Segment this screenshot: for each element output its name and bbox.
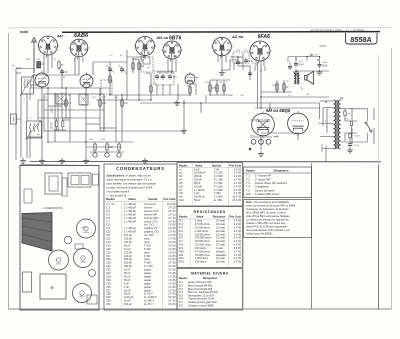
- svg-text:1/2 watt: 1/2 watt: [216, 225, 225, 229]
- model tag 8558A: [346, 33, 378, 44]
- resistor R20: [344, 111, 346, 116]
- svg-text:C28: C28: [106, 292, 111, 296]
- wire socket leads: [44, 55, 264, 66]
- svg-text:47 000 ohms: 47 000 ohms: [195, 249, 210, 253]
- svg-text:Repère: Repère: [179, 277, 188, 280]
- chassis small box: [75, 244, 83, 249]
- table middle top column rules: [228, 163, 230, 206]
- svg-text:2 F 15: 2 F 15: [168, 212, 176, 216]
- svg-text:F 150: F 150: [144, 261, 151, 265]
- svg-text:Valeur: Valeur: [196, 216, 204, 219]
- antenna coil L1: [22, 77, 34, 94]
- svg-text:1 x 490 pF: 1 x 490 pF: [124, 226, 136, 230]
- svg-text:100 pF: 100 pF: [124, 254, 132, 258]
- svg-text:25 nF: 25 nF: [124, 288, 131, 292]
- svg-text:F 150: F 150: [144, 254, 151, 258]
- svg-text:2 F 45: 2 F 45: [168, 226, 176, 230]
- svg-text:1 F 05: 1 F 05: [168, 243, 176, 247]
- svg-text:1 F 05: 1 F 05: [168, 240, 176, 244]
- svg-text:2 F 65: 2 F 65: [234, 167, 242, 171]
- svg-text:220 000 ohms: 220 000 ohms: [195, 243, 212, 247]
- svg-text:1 F 05: 1 F 05: [168, 247, 176, 251]
- svg-text:33 000 ohms: 33 000 ohms: [195, 239, 210, 243]
- svg-text:papier: papier: [144, 274, 151, 278]
- svg-text:12 F 50: 12 F 50: [167, 202, 176, 206]
- resistor R9: [189, 87, 191, 93]
- svg-text:2 200 ohms: 2 200 ohms: [195, 229, 209, 233]
- IF can under T2: [79, 94, 88, 105]
- svg-text:sect.: sect.: [250, 134, 255, 137]
- svg-text:séries PVC 42 et 80 sont rigou: séries PVC 42 et 80 sont rigoureuse-: [246, 225, 288, 229]
- svg-text:50 nF: 50 nF: [124, 278, 131, 282]
- svg-text:1°° lampe HF: 1°° lampe HF: [255, 174, 271, 178]
- svg-text:2 x 490 pF: 2 x 490 pF: [124, 202, 136, 206]
- svg-text:1 F 35: 1 F 35: [168, 281, 176, 285]
- svg-text:valve 80 ou 8Q4 redresseuse bi: valve 80 ou 8Q4 redresseuse biplaque.: [246, 214, 291, 218]
- wire bus bottom: [30, 161, 381, 163]
- svg-text:m7: m7: [179, 188, 183, 192]
- svg-text:papier: papier: [144, 268, 151, 272]
- tube T2 IF amp: [80, 75, 93, 88]
- value labels scattered: [12, 50, 328, 141]
- dial lamp LP1: [93, 153, 97, 157]
- vertical rule right of tables: [311, 163, 313, 309]
- svg-text:m10: m10: [179, 198, 185, 202]
- resistor R1: [58, 62, 60, 68]
- svg-text:Repère: Repère: [106, 197, 115, 201]
- svg-text:él. 450 V: él. 450 V: [144, 299, 154, 303]
- svg-text:1 x 490 pF: 1 x 490 pF: [124, 219, 136, 223]
- capacitor C2: [108, 68, 112, 70]
- coil adjust arrow L1: [20, 76, 34, 97]
- svg-text:C 9: C 9: [106, 226, 111, 230]
- svg-text:6M ou 6BQ5: 6M ou 6BQ5: [266, 108, 291, 113]
- svg-text:R11: R11: [179, 253, 184, 257]
- svg-text:47nF: 47nF: [299, 65, 305, 67]
- capacitor C7: [236, 61, 240, 63]
- svg-text:C 7: C 7: [106, 219, 111, 223]
- svg-text:C 1, C2: C 1, C2: [106, 202, 115, 206]
- svg-text:C15: C15: [106, 247, 111, 251]
- svg-text:R 2: R 2: [179, 222, 184, 226]
- svg-text:1M: 1M: [219, 82, 222, 84]
- chassis tube C: [74, 249, 93, 268]
- svg-text:mica: mica: [144, 240, 150, 244]
- svg-text:F 150: F 150: [144, 247, 151, 251]
- svg-text:Désignation: Désignation: [274, 168, 289, 172]
- svg-text:pot: pot: [186, 84, 189, 87]
- svg-text:1/2 watt: 1/2 watt: [216, 236, 225, 240]
- svg-text:R 5: R 5: [179, 232, 184, 236]
- tube socket V2: [70, 39, 88, 57]
- svg-text:F 1 150: F 1 150: [214, 171, 223, 175]
- oscillator coil L2: [27, 121, 42, 138]
- svg-text:2 F 15: 2 F 15: [168, 205, 176, 209]
- svg-text:100 µF: 100 µF: [124, 302, 132, 306]
- IF transformer box MF0: [141, 57, 153, 72]
- empty continuation box: [243, 238, 245, 308]
- svg-text:1M: 1M: [141, 66, 144, 68]
- svg-text:Valeur: Valeur: [128, 197, 136, 201]
- svg-text:0 F 45: 0 F 45: [234, 222, 242, 226]
- capacitor C9: [294, 63, 298, 65]
- svg-text:R 3: R 3: [179, 225, 184, 229]
- svg-text:R12: R12: [179, 256, 184, 260]
- rule above tables: [20, 165, 99, 166]
- svg-text:1 F 35: 1 F 35: [168, 285, 176, 289]
- svg-text:Lampe de sortie: Lampe de sortie: [255, 188, 275, 192]
- svg-text:22 000 ohms: 22 000 ohms: [195, 225, 210, 229]
- svg-text:T 4: T 4: [246, 185, 250, 189]
- svg-text:2 F 15: 2 F 15: [168, 209, 176, 213]
- svg-text:2 F 60: 2 F 60: [168, 302, 176, 306]
- capacitor C13: [248, 72, 252, 74]
- svg-text:papier: papier: [144, 278, 151, 282]
- svg-text:et la matière quali F.: et la matière quali F.: [107, 190, 130, 194]
- svg-text:6BT6: 6BT6: [169, 36, 181, 42]
- svg-text:2 x 450: 2 x 450: [214, 195, 223, 199]
- resistor R6: [132, 63, 134, 69]
- svg-text:1 F 05: 1 F 05: [234, 219, 242, 223]
- svg-text:2 x 50 pF: 2 x 50 pF: [194, 188, 205, 192]
- svg-text:1 F 05: 1 F 05: [168, 233, 176, 237]
- svg-text:1 F 05: 1 F 05: [168, 223, 176, 227]
- svg-text:50 µF: 50 µF: [194, 198, 201, 202]
- svg-text:LPC: LPC: [246, 192, 251, 196]
- svg-text:5 F 30: 5 F 30: [168, 295, 176, 299]
- svg-text:2 µF: 2 µF: [194, 191, 200, 195]
- svg-text:C30: C30: [106, 299, 111, 303]
- svg-text:150 pF: 150 pF: [124, 233, 132, 237]
- svg-text:2 F 45: 2 F 45: [234, 174, 242, 178]
- svg-text:0 F 45: 0 F 45: [234, 229, 242, 233]
- svg-text:1 F 35: 1 F 35: [168, 271, 176, 275]
- svg-text:m2: m2: [179, 171, 183, 175]
- svg-text:F 1 500: F 1 500: [214, 181, 223, 185]
- output transformer TR2: [294, 73, 295, 84]
- chassis layout box: [20, 166, 99, 311]
- svg-text:céram. CV2: céram. CV2: [144, 219, 158, 223]
- tube socket V5 AZ: [213, 37, 232, 56]
- capacitor C11: [288, 66, 292, 68]
- trimmer CV1: [107, 65, 114, 72]
- table condensateurs box: [104, 164, 177, 310]
- svg-text:Prix Code: Prix Code: [229, 164, 241, 167]
- chassis IF can B: [68, 173, 91, 187]
- svg-text:T 2: T 2: [246, 177, 250, 181]
- svg-text:entre eux-mêmes de la coupe 48: entre eux-mêmes de la coupe 487 ou 6AB6,: [246, 204, 296, 208]
- svg-text:R 1: R 1: [179, 219, 184, 223]
- svg-text:+HT: +HT: [240, 95, 245, 97]
- svg-text:C A: C A: [36, 58, 40, 61]
- vertical rule far right: [378, 55, 380, 165]
- IF transformer box MF1: [101, 80, 112, 94]
- tube socket V1 6AB6: [39, 36, 58, 55]
- svg-text:mica: mica: [144, 237, 150, 241]
- chassis small can right edge: [93, 174, 99, 185]
- svg-text:481 ou: 481 ou: [156, 36, 169, 40]
- svg-text:5 nF: 5 nF: [124, 281, 130, 285]
- IF can under T1: [56, 94, 66, 104]
- svg-text:6,3V: 6,3V: [101, 139, 106, 141]
- svg-text:à bloc techniques la céramique: à bloc techniques la céramique. CV c.a.: [107, 178, 153, 182]
- mains plug terminals: [251, 139, 256, 144]
- wire to HT: [288, 54, 320, 64]
- svg-text:2 F 45: 2 F 45: [234, 191, 242, 195]
- wire loop left section: [30, 94, 104, 158]
- svg-text:G: G: [262, 58, 264, 60]
- svg-text:250 pF: 250 pF: [124, 264, 132, 268]
- svg-text:2 F 15: 2 F 15: [168, 216, 176, 220]
- svg-text:ment équivalentes à titre indi: ment équivalentes à titre indicatif, il …: [246, 228, 290, 232]
- svg-text:1/2 watt: 1/2 watt: [216, 256, 225, 260]
- svg-text:Spécial.: Spécial.: [212, 164, 222, 167]
- chassis IF can A: [45, 173, 62, 194]
- svg-text:50 pF: 50 pF: [124, 243, 131, 247]
- svg-text:1/2 watt: 1/2 watt: [216, 229, 225, 233]
- svg-text:m9: m9: [179, 195, 183, 199]
- svg-text:47 000 ohms: 47 000 ohms: [195, 222, 210, 226]
- ground: [219, 70, 225, 76]
- svg-text:0 F 45: 0 F 45: [234, 232, 242, 236]
- svg-text:m5: m5: [179, 181, 183, 185]
- svg-text:1/2 watt: 1/2 watt: [216, 219, 225, 223]
- svg-text:250 pF: 250 pF: [124, 237, 132, 241]
- svg-text:10 000 ohms: 10 000 ohms: [195, 232, 210, 236]
- svg-text:1 F 05: 1 F 05: [234, 249, 242, 253]
- svg-text:C20: C20: [106, 264, 111, 268]
- svg-text:C29: C29: [106, 295, 111, 299]
- svg-text:ra suite. Ne fournir d'achat p: ra suite. Ne fournir d'achat pour F et M…: [107, 186, 153, 190]
- svg-text:Châssis nu percé 8558: Châssis nu percé 8558: [188, 304, 214, 307]
- tube socket V6 6FA6: [250, 41, 270, 61]
- svg-text:1 000 ohms: 1 000 ohms: [195, 256, 209, 260]
- svg-text:C 6: C 6: [106, 216, 111, 220]
- frame left rule: [8, 33, 10, 309]
- svg-text:470 ohms: 470 ohms: [195, 260, 207, 264]
- resistor R4: [109, 76, 111, 82]
- frame top rule: [62, 31, 380, 34]
- svg-text:R 9: R 9: [179, 246, 184, 250]
- svg-text:T 5: T 5: [246, 188, 250, 192]
- ground: [258, 151, 264, 157]
- svg-text:papier: papier: [144, 285, 151, 289]
- wire extra verticals: [16, 57, 326, 162]
- chassis tube B: [49, 250, 69, 270]
- svg-text:R 4: R 4: [179, 229, 184, 233]
- ground: [83, 158, 89, 164]
- svg-text:a.HT: a.HT: [314, 55, 319, 57]
- svg-text:100 pF: 100 pF: [194, 184, 202, 188]
- svg-text:1 x 490 pF: 1 x 490 pF: [124, 209, 136, 213]
- terminal block left edge: [11, 114, 17, 124]
- svg-text:50 µF: 50 µF: [124, 292, 131, 296]
- svg-text:50nF: 50nF: [322, 66, 328, 68]
- svg-text:Puissance: Puissance: [213, 216, 226, 219]
- rectifier filter network: [341, 109, 368, 142]
- svg-text:C27: C27: [106, 288, 111, 292]
- svg-text:1 F 35: 1 F 35: [168, 274, 176, 278]
- svg-text:50 pF: 50 pF: [194, 181, 201, 185]
- svg-text:10 nF: 10 nF: [124, 268, 131, 272]
- svg-text:1/2 watt: 1/2 watt: [216, 239, 225, 243]
- coil adjust arrow L2: [25, 121, 41, 141]
- svg-text:250 pF: 250 pF: [194, 174, 202, 178]
- svg-text:ajustable: ajustable: [216, 253, 227, 257]
- svg-text:1 F 35: 1 F 35: [168, 261, 176, 265]
- chassis tube D: [73, 284, 92, 303]
- svg-text:C16: C16: [106, 250, 111, 254]
- svg-text:F 1 150: F 1 150: [144, 264, 153, 268]
- ground: [174, 100, 180, 106]
- svg-text:1 x 490 pF: 1 x 490 pF: [124, 230, 136, 234]
- svg-text:250 pF: 250 pF: [194, 178, 202, 182]
- resistor R5: [121, 100, 123, 106]
- ground: [20, 158, 26, 164]
- ground: [59, 158, 65, 164]
- svg-text:AZ ou: AZ ou: [231, 34, 244, 39]
- frame right rule: [391, 48, 393, 309]
- svg-text:F 150: F 150: [144, 243, 151, 247]
- svg-text:470 000 ohms: 470 000 ohms: [195, 236, 212, 240]
- svg-text:C23: C23: [106, 274, 111, 278]
- svg-text:10nF: 10nF: [194, 167, 200, 171]
- svg-text:él. 25 V: él. 25 V: [144, 292, 153, 296]
- svg-text:C25: C25: [106, 281, 111, 285]
- chassis pilot hole: [64, 236, 72, 244]
- AVC arrows: [37, 75, 91, 86]
- svg-text:C13: C13: [106, 240, 111, 244]
- svg-text:R 8: R 8: [179, 243, 184, 247]
- resistor R13: [276, 84, 278, 90]
- svg-text:100 pF: 100 pF: [124, 240, 132, 244]
- svg-text:1 F 35: 1 F 35: [234, 181, 242, 185]
- tube T3 detector: [185, 74, 195, 84]
- svg-text:sous bakélite. Les valeurs que: sous bakélite. Les valeurs que tout chan…: [107, 182, 157, 186]
- svg-text:1M: 1M: [141, 60, 144, 62]
- svg-text:6BE6: 6BE6: [81, 228, 87, 230]
- wire horizontals: [16, 57, 329, 152]
- table condensateurs column rules: [121, 202, 123, 308]
- svg-text:Repère: Repère: [246, 168, 255, 172]
- svg-text:trimmer MF2: trimmer MF2: [144, 216, 159, 220]
- svg-text:1/2 watt: 1/2 watt: [216, 232, 225, 236]
- svg-text:R 6: R 6: [179, 236, 184, 240]
- svg-text:2 F 45: 2 F 45: [234, 188, 242, 192]
- svg-text:0 F 45: 0 F 45: [234, 225, 242, 229]
- frame bottom rule: [9, 308, 392, 310]
- svg-text:1 F 35: 1 F 35: [168, 288, 176, 292]
- svg-text:padding CV2: padding CV2: [144, 230, 159, 234]
- svg-text:1 F 05: 1 F 05: [168, 250, 176, 254]
- svg-text:él. 2x450 V: él. 2x450 V: [144, 295, 157, 299]
- svg-text:papier: papier: [144, 281, 151, 285]
- ground: [317, 70, 323, 76]
- svg-text:C22: C22: [106, 271, 111, 275]
- svg-text:1 F 05: 1 F 05: [168, 254, 176, 258]
- trimmer CV2: [119, 65, 126, 72]
- svg-text:mica: mica: [144, 250, 150, 254]
- dial lamp LP3: [117, 153, 121, 157]
- svg-text:1 F 35: 1 F 35: [234, 184, 242, 188]
- svg-text:1 F 05: 1 F 05: [168, 257, 176, 261]
- svg-text:m8: m8: [179, 191, 183, 195]
- resistor R11: [216, 85, 218, 91]
- svg-text:VERT: VERT: [50, 107, 53, 114]
- chassis tuning gang: [22, 213, 52, 252]
- svg-text:100 pF: 100 pF: [124, 261, 132, 265]
- svg-text:C 5: C 5: [106, 212, 111, 216]
- svg-text:trimmer CV2: trimmer CV2: [144, 209, 159, 213]
- ground: [39, 158, 45, 164]
- svg-text:1 x 490 pF: 1 x 490 pF: [124, 216, 136, 220]
- resistor R12: [223, 85, 225, 91]
- svg-text:0 F 45: 0 F 45: [234, 236, 242, 240]
- svg-text:50 nF: 50 nF: [124, 271, 131, 275]
- svg-text:21 F 45: 21 F 45: [232, 198, 241, 202]
- capacitor C1: [60, 70, 64, 72]
- svg-text:0 F 45: 0 F 45: [234, 260, 242, 264]
- dial lamp LP2: [105, 153, 109, 157]
- resistor R22: [349, 133, 351, 137]
- svg-text:1 F 35: 1 F 35: [168, 264, 176, 268]
- oscillator padder cluster: [54, 119, 66, 131]
- junction dots: [33, 55, 326, 142]
- svg-text:2° lampe MF: 2° lampe MF: [255, 177, 271, 181]
- svg-text:16+50 µF: 16+50 µF: [194, 195, 205, 199]
- svg-text:m4: m4: [179, 178, 183, 182]
- svg-text:5 valves (380 ohms): 5 valves (380 ohms): [255, 192, 279, 196]
- svg-text:C 8: C 8: [106, 223, 111, 227]
- resistor R21: [350, 121, 352, 125]
- svg-text:2 F 45: 2 F 45: [168, 230, 176, 234]
- note box: [244, 200, 312, 238]
- svg-text:C31: C31: [106, 302, 111, 306]
- resistor R7: [138, 63, 140, 69]
- svg-text:2x16 µF: 2x16 µF: [124, 295, 134, 299]
- svg-text:1 F 05: 1 F 05: [168, 237, 176, 241]
- svg-text:papier: papier: [144, 288, 151, 292]
- svg-text:0 F 65: 0 F 65: [234, 246, 242, 250]
- svg-text:— prix au tarif 19.. —: — prix au tarif 19.. —: [107, 194, 132, 198]
- svg-text:1 meg.: 1 meg.: [195, 219, 203, 223]
- svg-text:C21: C21: [106, 268, 111, 272]
- svg-text:trimmer MF: trimmer MF: [144, 212, 157, 216]
- svg-text:1/2 watt: 1/2 watt: [216, 260, 225, 264]
- transformer taps: [318, 101, 334, 152]
- svg-text:0 F 45: 0 F 45: [234, 243, 242, 247]
- svg-text:C 3: C 3: [106, 205, 111, 209]
- svg-text:C10: C10: [106, 230, 111, 234]
- svg-text:Valeur: Valeur: [195, 164, 203, 167]
- svg-text:indiqué pour Ne 58/58/....: indiqué pour Ne 58/58/....: [246, 232, 275, 236]
- svg-text:6AB6: 6AB6: [74, 33, 89, 39]
- svg-text:T 1: T 1: [246, 174, 250, 178]
- svg-text:C14: C14: [106, 243, 111, 247]
- svg-text:1/2 watt: 1/2 watt: [216, 222, 225, 226]
- svg-text:det: det: [196, 76, 199, 79]
- svg-text:Nota : Ces récepteurs sont jus: Nota : Ces récepteurs sont justifiables: [246, 200, 290, 204]
- capacitor C12: [348, 143, 352, 145]
- table resistances box: [177, 207, 243, 268]
- tube socket V4: [163, 41, 181, 59]
- svg-text:C 4: C 4: [106, 209, 111, 213]
- svg-text:C12: C12: [106, 237, 111, 241]
- chassis terminal strip: [24, 189, 32, 203]
- svg-text:Prix Code: Prix Code: [163, 197, 176, 201]
- svg-text:47 pF: 47 pF: [124, 247, 131, 251]
- svg-text:R13: R13: [179, 260, 184, 264]
